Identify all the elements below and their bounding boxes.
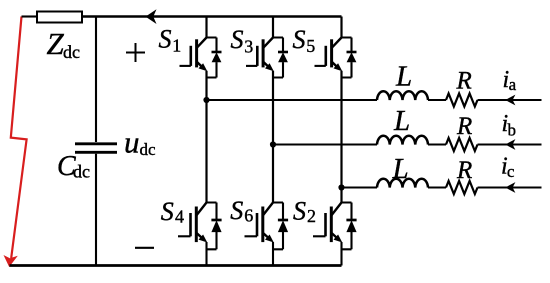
svg-text:R: R [456,68,472,95]
svg-text:S: S [230,196,243,225]
svg-text:6: 6 [244,206,253,226]
svg-text:dc: dc [140,140,157,159]
svg-text:L: L [393,105,410,137]
svg-text:a: a [509,75,517,94]
svg-text:1: 1 [172,36,181,56]
svg-text:L: L [395,61,412,93]
svg-text:S: S [231,25,244,54]
svg-text:3: 3 [244,36,253,56]
svg-text:dc: dc [63,42,80,62]
svg-text:L: L [392,153,409,185]
svg-text:u: u [124,125,140,160]
svg-text:5: 5 [306,36,315,56]
svg-text:dc: dc [73,162,90,182]
svg-text:b: b [508,121,517,140]
svg-text:Z: Z [47,26,65,61]
svg-text:S: S [293,197,306,226]
svg-text:R: R [456,113,472,140]
svg-text:R: R [456,157,472,184]
svg-text:c: c [507,162,515,181]
svg-text:S: S [293,25,306,54]
svg-text:S: S [159,24,172,53]
svg-text:4: 4 [175,207,184,227]
svg-text:2: 2 [307,206,316,226]
svg-text:S: S [161,197,174,226]
